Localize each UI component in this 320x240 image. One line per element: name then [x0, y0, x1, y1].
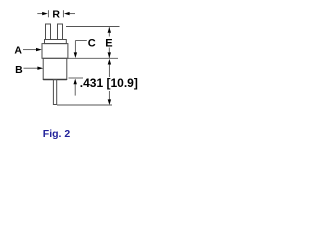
wire: lower stem	[108, 91, 110, 101]
wire: R left arrow tail	[37, 13, 45, 15]
wire: extension line pin tip	[57, 104, 112, 106]
wire: A leader	[23, 49, 37, 51]
wire: B leader	[24, 67, 38, 69]
upper body	[42, 44, 68, 59]
svg-text:Fig. 2: Fig. 2	[43, 128, 71, 140]
.431 up arrowhead	[108, 59, 111, 65]
wire: C leader horizontal	[75, 40, 86, 42]
svg-text:C: C	[88, 37, 96, 49]
wire: extension line body bottom	[69, 77, 84, 79]
svg-text:A: A	[14, 44, 22, 56]
svg-text:B: B	[15, 64, 23, 76]
node: R left extension bar	[47, 10, 49, 17]
dimension C	[69, 41, 87, 96]
wire: extension line pins top	[66, 26, 120, 28]
wire: C leader vertical	[74, 41, 76, 53]
wire: upper stem	[108, 65, 110, 78]
connector body outline group	[42, 24, 68, 105]
dimension E	[66, 27, 120, 59]
center pin (bottom)	[53, 80, 56, 105]
wire: E upper stem	[108, 27, 110, 36]
collar	[45, 40, 67, 44]
dimension .431 [10.9]	[57, 65, 112, 106]
pin P2 (right prong)	[58, 24, 63, 40]
svg-text:E: E	[105, 37, 112, 49]
wire: E lower stem	[108, 48, 110, 59]
wire: extension line body step	[67, 57, 118, 59]
dimension R	[37, 10, 75, 17]
wire: R right arrow tail	[67, 13, 75, 15]
svg-text:.431 [10.9]: .431 [10.9]	[80, 76, 138, 90]
lower body	[43, 58, 67, 79]
pin P1 (left prong)	[46, 24, 51, 40]
.431 down arrowhead	[108, 99, 111, 105]
C down arrowhead	[74, 52, 77, 58]
body bottom edge (thick)	[43, 79, 67, 81]
C bottom up arrowhead	[74, 79, 77, 85]
wire: C bottom tail stem	[74, 84, 76, 96]
R left arrowhead	[42, 12, 48, 15]
E up arrowhead	[108, 27, 111, 33]
A arrowhead	[36, 48, 42, 51]
B arrowhead	[37, 67, 43, 70]
svg-text:R: R	[52, 9, 60, 21]
E down arrowhead	[108, 52, 111, 58]
R right arrowhead	[64, 12, 70, 15]
node: R right extension bar	[62, 10, 64, 17]
